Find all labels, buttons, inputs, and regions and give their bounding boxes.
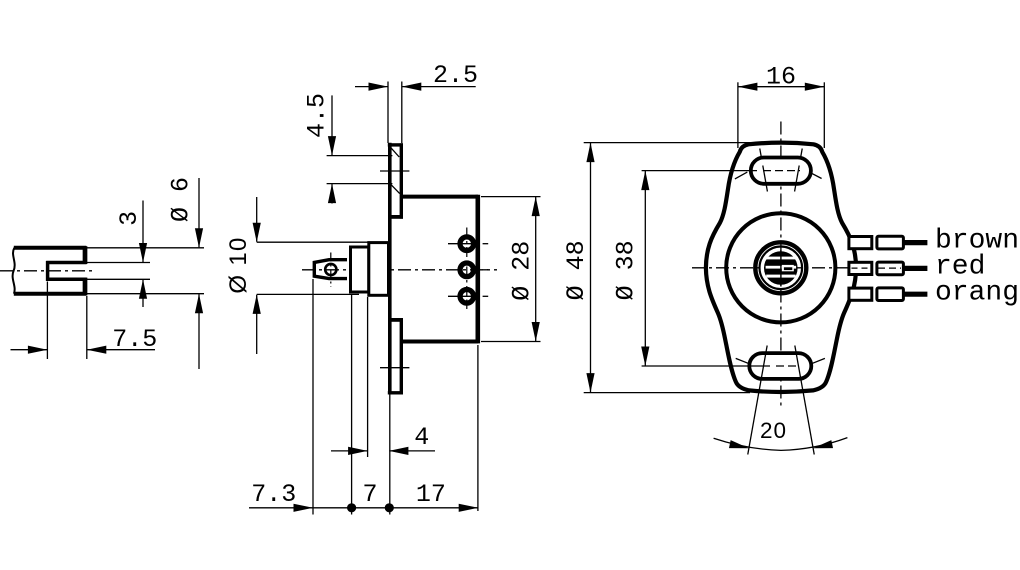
centerline through middle ferrule xyxy=(878,267,901,269)
chain arrow left xyxy=(294,504,314,512)
flange bottom slot centerline xyxy=(380,367,409,369)
svg-text:7.5: 7.5 xyxy=(112,325,157,354)
dim 4 left line xyxy=(331,450,367,452)
svg-text:Ø 48: Ø 48 xyxy=(562,240,591,300)
bushing xyxy=(351,247,369,292)
top mounting slot xyxy=(751,158,811,184)
angle line tick upper-right xyxy=(801,149,803,158)
dim dia38 line xyxy=(644,171,646,366)
top slot corner mark right xyxy=(809,172,821,178)
rivet 1 crosshair dash xyxy=(483,243,489,245)
rivet 2 xyxy=(460,263,474,277)
flange top tab rear edge xyxy=(400,143,403,218)
mounting bracket outline xyxy=(706,143,856,392)
bottom slot centerline dashes xyxy=(776,365,800,367)
dim 16 line xyxy=(738,86,824,88)
shaft break line (wavy) xyxy=(13,248,15,294)
shaft vertical centerline tick xyxy=(330,253,332,288)
dim dia28 line xyxy=(535,197,537,342)
extension line top xyxy=(86,247,204,249)
terminal tab brown xyxy=(849,237,872,249)
dia48 extension top xyxy=(584,142,754,144)
rivet 3 xyxy=(460,290,474,304)
16 extension right xyxy=(823,82,825,148)
extension line bottom xyxy=(86,293,204,295)
shaft cross hole xyxy=(325,264,336,275)
body circle dia28 xyxy=(726,213,835,322)
dim 3 lower line xyxy=(142,280,144,307)
centerline crossing shaft face xyxy=(780,250,782,287)
flange slot upper line xyxy=(327,155,393,157)
angle line tick below slot right xyxy=(795,166,800,192)
flange front face xyxy=(388,143,392,393)
dim dia6 upper line xyxy=(198,178,200,247)
svg-text:2.5: 2.5 xyxy=(433,61,478,90)
dia10 extension bottom xyxy=(257,293,359,295)
body rear face xyxy=(475,195,480,344)
chain dot 2 xyxy=(385,503,394,512)
extension collar face down xyxy=(367,297,369,457)
slot bottom edge xyxy=(46,278,86,282)
dim dia10 lower line xyxy=(256,295,258,354)
flange slot diagonal lower xyxy=(391,184,400,193)
chain arrow right xyxy=(459,504,479,512)
angle arrow left xyxy=(729,440,750,452)
svg-text:4: 4 xyxy=(414,423,429,452)
slot bottom face xyxy=(46,261,50,281)
vertical centerline xyxy=(780,122,782,410)
dia48 extension bottom xyxy=(584,392,750,394)
angle line tick below slot left xyxy=(763,166,768,192)
flange slot diagonal upper xyxy=(391,147,400,157)
shaft face with screwdriver slot xyxy=(765,252,798,285)
rivet 3 crosshair dash xyxy=(483,295,489,297)
flange top edge xyxy=(388,143,403,146)
extension line slot bottom xyxy=(86,278,150,280)
dim dia6 lower line xyxy=(198,294,200,369)
top slot corner mark left xyxy=(735,172,747,179)
wire orange xyxy=(903,292,927,297)
shaft centerline xyxy=(0,270,93,272)
dim 4 right line xyxy=(389,450,435,452)
shaft end face lower xyxy=(83,278,88,296)
bottom mounting slot xyxy=(749,353,811,379)
body bottom edge xyxy=(401,340,478,344)
rivet 3 crosshair xyxy=(448,295,476,297)
shaft end face upper xyxy=(83,246,88,264)
wire ferrule red xyxy=(877,262,904,275)
flange bottom tab foot xyxy=(390,318,403,322)
svg-text:7.3: 7.3 xyxy=(251,480,296,509)
bushing inner circle xyxy=(760,246,803,289)
bottom slot centerline xyxy=(642,365,770,367)
flange slot lower line xyxy=(327,183,393,185)
dim 7.5 right line xyxy=(87,349,155,351)
svg-text:7: 7 xyxy=(362,480,377,509)
extension bushing face down xyxy=(351,294,353,515)
dim dia48 line xyxy=(590,143,592,393)
2.5 extension right xyxy=(401,82,403,144)
dim 4.5 upper line xyxy=(331,95,333,155)
shaft bottom edge xyxy=(14,292,87,296)
angle line tick upper-left xyxy=(760,149,762,158)
extension flange face down xyxy=(389,394,391,514)
rivet 2 crosshair dash xyxy=(483,269,489,271)
bottom slot corner mark left xyxy=(736,358,751,364)
dia28 extension bottom xyxy=(481,341,541,343)
flange top tab foot xyxy=(390,215,403,219)
bushing ring front xyxy=(755,242,806,293)
dim 7.5 left line xyxy=(11,349,48,351)
top slot centerline xyxy=(642,170,757,172)
dia10 extension top xyxy=(257,241,388,243)
dim 3 upper line xyxy=(142,201,144,263)
dia28 extension top xyxy=(481,196,541,198)
flange bottom tab rear edge xyxy=(400,318,403,394)
body top edge xyxy=(401,195,478,199)
dim dia10 upper line xyxy=(256,197,258,242)
flange bottom edge xyxy=(388,391,403,394)
dim 2.5 left line xyxy=(355,86,388,88)
svg-text:16: 16 xyxy=(766,62,796,91)
step collar xyxy=(369,243,389,296)
wire brown xyxy=(903,240,927,245)
horizontal centerline xyxy=(692,267,869,269)
angle 20 dimension arc xyxy=(714,438,848,451)
top slot centerline dashes xyxy=(763,170,800,172)
svg-text:Ø 10: Ø 10 xyxy=(225,236,252,293)
extension line down slot xyxy=(46,282,48,360)
svg-text:Ø 6: Ø 6 xyxy=(166,177,195,222)
rivet 1 crosshair xyxy=(448,243,476,245)
terminal tab red xyxy=(849,262,872,274)
svg-text:orange: orange xyxy=(935,278,1020,309)
shaft side profile xyxy=(314,260,347,279)
chain dot 1 xyxy=(347,503,356,512)
svg-text:17: 17 xyxy=(416,480,446,509)
angle 20 line right xyxy=(795,346,814,455)
svg-text:4.5: 4.5 xyxy=(302,93,331,138)
wire red xyxy=(903,266,927,271)
wire ferrule brown xyxy=(877,236,904,249)
16 extension left xyxy=(737,82,739,148)
rivet 1 xyxy=(460,237,474,251)
terminal tab orange xyxy=(849,288,872,300)
centerline through middle tab xyxy=(852,267,872,269)
svg-text:20: 20 xyxy=(760,418,787,443)
svg-text:3: 3 xyxy=(115,211,144,226)
extension line slot top xyxy=(86,262,150,264)
shaft top edge xyxy=(14,246,87,250)
svg-text:Ø 38: Ø 38 xyxy=(612,240,641,300)
flange slot centerline xyxy=(380,170,409,172)
angle arrow right xyxy=(812,440,833,452)
side view centerline xyxy=(302,269,497,271)
wire ferrule orange xyxy=(877,288,904,301)
angle 20 line left xyxy=(748,346,767,455)
2.5 extension left xyxy=(387,82,389,144)
chain dimension line xyxy=(249,507,478,509)
extension line down shaft end xyxy=(86,296,88,359)
rivet vertical centerline xyxy=(466,228,468,310)
svg-text:Ø 28: Ø 28 xyxy=(508,241,537,301)
slot top edge xyxy=(46,261,86,265)
dim 2.5 right line xyxy=(402,86,476,88)
dim 4.5 lower line xyxy=(331,184,333,203)
bottom slot corner mark right xyxy=(810,358,825,364)
extension body rear down xyxy=(477,345,479,511)
extension shaft tip down xyxy=(312,279,314,515)
